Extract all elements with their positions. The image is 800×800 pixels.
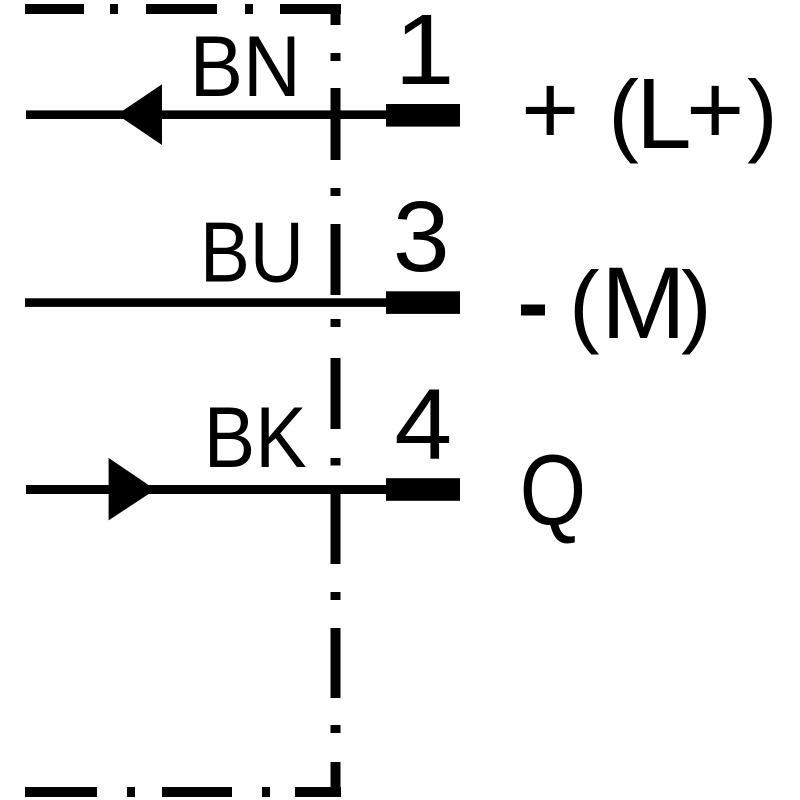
wire BK (pin 4) <box>26 485 386 494</box>
device outline: right vertical dash-dot border <box>331 53 341 797</box>
svg-text:BK: BK <box>204 390 307 486</box>
svg-text:L: L <box>636 58 692 170</box>
svg-text:(: ( <box>608 62 639 164</box>
svg-text:): ) <box>681 253 712 355</box>
svg-text:Q: Q <box>520 435 587 547</box>
svg-text:4: 4 <box>394 369 452 481</box>
svg-text:3: 3 <box>393 181 450 293</box>
terminal pin 1 <box>386 104 460 127</box>
arrowhead on BN wire pointing left <box>117 84 162 145</box>
net label + (L+) for pin 1 supply <box>521 54 778 170</box>
wire BU (pin 3) <box>25 298 386 307</box>
arrowhead on BK wire pointing right <box>109 458 156 521</box>
svg-text:M: M <box>601 246 686 360</box>
svg-text:BU: BU <box>200 206 304 301</box>
device outline: top dash-dot border <box>25 4 341 25</box>
svg-text:(: ( <box>569 253 600 355</box>
svg-text:BN: BN <box>190 19 301 115</box>
svg-text:+: + <box>686 54 744 166</box>
terminal pin 3 <box>386 291 460 314</box>
terminal pin 4 <box>386 478 460 501</box>
device outline: bottom dash-dot border <box>25 787 341 797</box>
svg-text:1: 1 <box>395 0 455 106</box>
svg-text:): ) <box>747 62 778 164</box>
wire BN (pin 1) <box>26 110 386 119</box>
svg-text:+: + <box>521 54 579 166</box>
net label - (M) for pin 3 ground <box>521 246 712 360</box>
